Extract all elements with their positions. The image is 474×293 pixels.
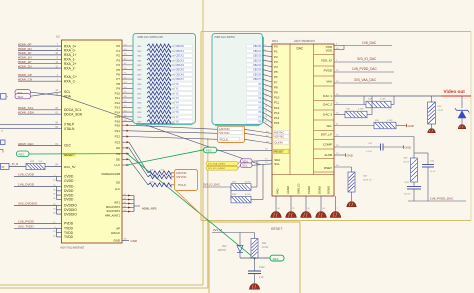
svg-text:P5: P5 xyxy=(116,68,120,72)
svg-text:510R 1%: 510R 1% xyxy=(363,179,372,181)
wire fan: IC1 sync outputs to HSYNC/VSYNC/PCLK labels (A) xyxy=(129,125,218,139)
svg-text:P3: P3 xyxy=(274,60,278,64)
svg-text:PGND: PGND xyxy=(307,186,311,194)
DD1 RESET pin name (highlight) xyxy=(274,149,290,154)
svg-text:RESET: RESET xyxy=(271,227,283,231)
DD1 VAA pin net 3V3_VAA_DAC xyxy=(326,78,392,83)
svg-text:GND: GND xyxy=(131,239,139,243)
svg-text:RSET: RSET xyxy=(324,166,332,170)
svg-text:6.19R: 6.19R xyxy=(380,99,386,101)
svg-text:DD1: DD1 xyxy=(272,39,278,43)
svg-text:RXA_0+: RXA_0+ xyxy=(64,44,76,48)
svg-text:CBCX1: CBCX1 xyxy=(176,50,185,53)
svg-text:P12: P12 xyxy=(274,106,280,110)
DD1 SFL output with resistor R35 to GND xyxy=(326,120,413,129)
svg-text:_5V_M: _5V_M xyxy=(10,163,19,166)
net label pill 3V3_SCL xyxy=(206,166,238,170)
svg-text:RXA_2-: RXA_2- xyxy=(64,66,76,70)
svg-text:CBCX3: CBCX3 xyxy=(176,59,185,62)
DD1 DAC1 output -> Video out xyxy=(323,94,441,98)
svg-text:DVDDIO: DVDDIO xyxy=(64,212,77,216)
svg-text:P5: P5 xyxy=(274,70,278,74)
port (left edge, I2C) xyxy=(1,94,9,100)
DD1 left pin names P0-P15 xyxy=(274,45,280,126)
IC1 right output pins with arrow stubs xyxy=(114,123,129,167)
svg-text:C103: C103 xyxy=(404,182,410,184)
svg-text:P14: P14 xyxy=(274,116,280,120)
svg-text:3V3_TVDD: 3V3_TVDD xyxy=(18,224,34,228)
svg-text:P3: P3 xyxy=(116,58,120,62)
svg-text:RXA_1+: RXA_1+ xyxy=(64,53,76,57)
svg-text:P13: P13 xyxy=(274,111,280,115)
svg-text:PCLK: PCLK xyxy=(178,183,186,187)
IC1 right pins P0-P16 with wires to resistor network RN1 xyxy=(115,44,147,124)
resistor network RN1 (terminator pack) xyxy=(133,34,196,125)
svg-text:P2: P2 xyxy=(274,55,278,59)
svg-text:DE: DE xyxy=(116,158,120,162)
DD1 VDD_IO pin net 3V3_IO_DAC xyxy=(321,57,392,62)
svg-text:PCLK: PCLK xyxy=(220,138,228,142)
svg-text:HDMI_2N: HDMI_2N xyxy=(18,64,32,68)
svg-text:HDMI_CEC: HDMI_CEC xyxy=(18,142,35,146)
svg-text:HS: HS xyxy=(116,146,120,150)
svg-text:VSYNC: VSYNC xyxy=(176,175,187,179)
svg-text:VS: VS xyxy=(116,152,120,156)
svg-text:CBCX6: CBCX6 xyxy=(253,73,262,76)
svg-text:RESET: RESET xyxy=(274,150,284,154)
svg-text:RXA_C-: RXA_C- xyxy=(64,79,76,83)
IC1 pin RESET name xyxy=(63,153,76,158)
svg-text:P0: P0 xyxy=(116,44,120,48)
DD1 ALSB pin to GND xyxy=(324,153,352,158)
diode VD2 BAT54 xyxy=(218,233,243,259)
svg-text:HDMI_SCL: HDMI_SCL xyxy=(18,106,34,110)
svg-text:XTALN: XTALN xyxy=(64,127,75,131)
DD1 EXT_LF pin RC network to 1V8_PVDD_DAC xyxy=(321,133,466,201)
svg-text:RES: RES xyxy=(273,257,279,261)
svg-text:1V8_DVDD: 1V8_DVDD xyxy=(18,183,35,187)
svg-text:CBCX7: CBCX7 xyxy=(176,78,185,81)
svg-text:HDMI_CP: HDMI_CP xyxy=(18,73,32,77)
svg-text:1V8_DAC: 1V8_DAC xyxy=(362,41,377,45)
svg-text:P2: P2 xyxy=(116,54,120,58)
IC1 right lower pin names xyxy=(101,172,120,218)
wire SDA to pin 14 (crossing) xyxy=(31,92,62,96)
svg-text:1V8_PVDD_DAC: 1V8_PVDD_DAC xyxy=(430,196,454,200)
svg-text:P20: P20 xyxy=(115,123,121,127)
svg-text:5V: 5V xyxy=(2,166,5,169)
net label RES (green, left) xyxy=(17,151,30,157)
svg-text:P12: P12 xyxy=(115,101,121,105)
resistor network RN2 (series pack at DAC) xyxy=(212,34,264,126)
TVS diode VD1 on video out xyxy=(455,96,471,129)
svg-text:75.0R: 75.0R xyxy=(438,110,444,112)
IC1 audio out pin names xyxy=(111,227,120,235)
DD1 bottom ground pins to GND xyxy=(271,196,341,217)
DD1 PVDD pin net 1V8_PVDD_DAC xyxy=(324,67,394,72)
svg-text:P23: P23 xyxy=(115,140,121,144)
svg-text:47x0h: 47x0h xyxy=(245,193,252,196)
svg-text:CBCX0: CBCX0 xyxy=(253,45,262,48)
svg-text:MCLK/INT2: MCLK/INT2 xyxy=(106,205,121,209)
wire I2C diagonal from IC1 SDA pin to DAC SDA/SCL xyxy=(62,96,261,165)
IC1 power pins TVDD with net label 3V3_TVDD xyxy=(14,224,74,239)
DD1 DAC3 output with resistor R32 xyxy=(323,96,372,118)
IC1 pins DDCA_SCL/DDCA_SDA with HDMI_SCL/HDMI_SDA labels xyxy=(18,106,83,116)
svg-text:3V3_DVDDIO: 3V3_DVDDIO xyxy=(18,202,38,206)
svg-text:10 k0r: 10 k0r xyxy=(262,247,269,249)
series resistors into group B xyxy=(148,170,175,187)
svg-text:SCL: SCL xyxy=(274,162,280,166)
svg-text:LRCLK: LRCLK xyxy=(111,231,120,235)
svg-text:CBCX6: CBCX6 xyxy=(176,73,185,76)
wire fan: IC1 outputs to series resistors (B) xyxy=(129,142,148,185)
section box: RESET sub-circuit xyxy=(209,222,300,293)
svg-text:RES: RES xyxy=(19,153,25,157)
svg-text:CBCX3: CBCX3 xyxy=(253,59,262,62)
svg-text:HDMI_1N: HDMI_1N xyxy=(18,56,32,60)
port mark red (left edge) xyxy=(0,150,3,153)
svg-text:RES: RES xyxy=(206,149,212,153)
svg-text:P14: P14 xyxy=(115,110,121,114)
svg-text:RXA_0-: RXA_0- xyxy=(64,49,76,53)
IC1 power pins DVDDIO with net label 3V3_DVDDIO xyxy=(14,202,77,217)
IC1 power pins CVDD with net label 1V8_CVDD xyxy=(14,173,74,184)
svg-text:P0: P0 xyxy=(274,45,278,49)
port (left edge, CEC) xyxy=(1,140,6,145)
svg-text:PAD: PAD xyxy=(276,189,280,194)
svg-text:PVDD: PVDD xyxy=(324,69,333,73)
svg-text:0.2r: 0.2r xyxy=(39,161,43,163)
svg-text:SCL: SCL xyxy=(64,90,71,94)
IC1 GND pin xyxy=(113,238,138,243)
svg-text:VDD_IO: VDD_IO xyxy=(321,59,333,63)
section box: video DAC area (right) xyxy=(201,32,471,221)
op-amp/IC DD1 ADV7393BCPZ video DAC body xyxy=(272,39,334,196)
svg-text:P11: P11 xyxy=(274,101,279,105)
wire RES green diagonal to reset circuit xyxy=(127,154,254,258)
svg-text:3V3_SDA_64MHZ: 3V3_SDA_64MHZ xyxy=(208,163,226,166)
svg-text:CBCX5: CBCX5 xyxy=(253,69,262,72)
svg-text:VSYNC: VSYNC xyxy=(274,135,284,139)
svg-text:CBCX2: CBCX2 xyxy=(253,55,262,58)
svg-text:1V8_PVDD: 1V8_PVDD xyxy=(18,219,35,223)
svg-text:VD2: VD2 xyxy=(222,246,227,248)
svg-text:CBCX4: CBCX4 xyxy=(176,64,185,67)
svg-text:SDA: SDA xyxy=(18,95,24,99)
wire Video out (red) xyxy=(441,89,471,96)
svg-text:COMP: COMP xyxy=(323,142,332,146)
wire RES green to RES label near DAC xyxy=(127,150,204,165)
section box: HDMI receiver area (left), bottom+right borders xyxy=(0,0,208,288)
svg-text:R31: R31 xyxy=(368,99,372,101)
net label 3V3_IO_DAC with pull-up resistors R33/R34 xyxy=(203,161,263,203)
harness label group A: HSYNC/VSYNC/PCLK at DAC xyxy=(218,126,245,143)
wire RES green across to right pin xyxy=(29,153,127,155)
svg-text:P7: P7 xyxy=(116,77,120,81)
resistor R42 10k (reset pull-up) xyxy=(251,233,269,261)
svg-text:P7: P7 xyxy=(274,80,278,84)
wire reset node xyxy=(240,257,270,259)
IC1 power pins PVDD with net label 1V8_PVDD xyxy=(14,219,74,225)
svg-text:P1: P1 xyxy=(116,49,120,53)
DD1 SDA/SCL pin names xyxy=(274,158,280,166)
svg-text:HDMI_1P: HDMI_1P xyxy=(18,51,31,55)
svg-text:3V3_IO_DAC: 3V3_IO_DAC xyxy=(357,57,377,61)
svg-text:3V3_VAA_DAC: 3V3_VAA_DAC xyxy=(354,78,377,82)
IC1 HDMI differential input pins with net labels xyxy=(18,42,77,83)
resistor R60 0.2R (RXA_5V feed) xyxy=(9,161,76,170)
svg-text:C102: C102 xyxy=(259,267,265,269)
svg-text:V&FIELD/ALSB: V&FIELD/ALSB xyxy=(101,172,120,176)
svg-text:P4: P4 xyxy=(274,65,278,69)
svg-text:DGND: DGND xyxy=(327,186,331,194)
svg-text:P22: P22 xyxy=(115,135,121,139)
svg-text:PVDD: PVDD xyxy=(64,222,74,226)
svg-text:CBCX0: CBCX0 xyxy=(176,45,185,48)
DD1 bottom ground pad names (rotated) xyxy=(276,184,331,194)
svg-text:GND_IO: GND_IO xyxy=(297,184,301,194)
svg-text:150 nF: 150 nF xyxy=(404,193,411,195)
svg-text:12 nF: 12 nF xyxy=(430,171,436,173)
svg-text:1V8_PVDD_DAC: 1V8_PVDD_DAC xyxy=(352,67,378,71)
DD1 DAC2 output with resistor R31 xyxy=(323,96,394,108)
svg-text:CBCX4: CBCX4 xyxy=(253,64,262,67)
svg-text:P13: P13 xyxy=(115,106,121,110)
svg-text:ADV7611WBSWZ: ADV7611WBSWZ xyxy=(59,246,84,250)
IC1 pin CEC with HDMI_CEC label xyxy=(18,142,72,148)
svg-text:P15: P15 xyxy=(115,115,121,119)
svg-text:2.2 nF: 2.2 nF xyxy=(365,151,373,153)
svg-text:P6: P6 xyxy=(116,73,120,77)
harness labels SCL/SDA (left I2C) xyxy=(15,90,31,99)
svg-text:SCLK/INT2: SCLK/INT2 xyxy=(106,209,120,213)
svg-text:P10: P10 xyxy=(274,96,280,100)
svg-text:ALSB: ALSB xyxy=(324,153,332,157)
wires RN2 to DAC pins P0-P15 xyxy=(263,45,273,128)
svg-text:P10: P10 xyxy=(115,91,121,95)
svg-text:LLC: LLC xyxy=(114,163,120,167)
port 5V_M (left) xyxy=(1,163,19,169)
svg-text:RXA_5V: RXA_5V xyxy=(64,165,76,169)
svg-text:3V3_IO_DAC: 3V3_IO_DAC xyxy=(203,182,220,186)
svg-text:*: * xyxy=(7,95,8,99)
wires group A to DAC sync pins xyxy=(245,129,273,143)
svg-text:VSYNC: VSYNC xyxy=(219,131,230,135)
svg-text:P8: P8 xyxy=(274,85,278,89)
svg-text:P15: P15 xyxy=(274,121,280,125)
svg-text:RXA_1-: RXA_1- xyxy=(64,58,76,62)
svg-text:CBCX1: CBCX1 xyxy=(253,50,262,53)
svg-text:CBCX7: CBCX7 xyxy=(253,78,262,81)
svg-text:GND: GND xyxy=(405,145,411,149)
svg-text:1 nF: 1 nF xyxy=(259,277,264,279)
svg-text:CBCX5: CBCX5 xyxy=(176,69,185,72)
ground (reset circuit) xyxy=(249,284,260,290)
wire RES label to DAC RESET pin xyxy=(217,149,272,151)
svg-text:R42: R42 xyxy=(262,242,267,245)
svg-text:P4: P4 xyxy=(116,63,120,67)
svg-text:HDMI_2P: HDMI_2P xyxy=(18,60,31,64)
svg-text:DAC 1: DAC 1 xyxy=(323,94,332,98)
harness cable orange to reset box xyxy=(176,191,209,223)
svg-text:6.19R: 6.19R xyxy=(358,109,364,111)
DD1 sync pin names HSYNC/VSYNC/CLKIN xyxy=(274,130,290,144)
svg-text:DGND: DGND xyxy=(318,186,322,194)
svg-text:DDCA_SCL: DDCA_SCL xyxy=(64,108,82,112)
harness labels SDA/SCL at DAC xyxy=(241,159,253,168)
svg-text:VAA: VAA xyxy=(326,80,332,84)
svg-text:LLC: LLC xyxy=(115,187,120,191)
svg-text:GND: GND xyxy=(113,239,121,243)
svg-text:TVDD: TVDD xyxy=(64,235,74,239)
svg-text:P8: P8 xyxy=(116,82,120,86)
capacitor C102 1nF xyxy=(248,258,265,283)
wires SDA/SCL to DAC pins xyxy=(238,158,272,168)
DD1 COMP pin with capacitor C30 to GND xyxy=(323,142,411,152)
IC1 power pins DVDD with net label 1V8_DVDD xyxy=(14,183,74,202)
svg-text:VDD: VDD xyxy=(326,49,333,53)
net label RES (green, near DAC) xyxy=(204,147,217,153)
svg-text:GND: GND xyxy=(408,124,414,128)
svg-text:3V3_SCL_64MHZ: 3V3_SCL_64MHZ xyxy=(208,168,226,170)
resistor R30 75R shunt to ground xyxy=(428,96,444,133)
svg-text:BAT54?: BAT54? xyxy=(218,249,227,252)
svg-text:CLKIN: CLKIN xyxy=(274,141,283,145)
harness label group B: HSYNC/VSYNC/PCLK source xyxy=(175,170,198,191)
svg-text:DAC 2: DAC 2 xyxy=(323,103,332,107)
svg-text:CVDD: CVDD xyxy=(64,175,74,179)
wire SCL to pin 13 (crossing) xyxy=(31,92,62,96)
svg-text:P21: P21 xyxy=(115,129,121,133)
svg-text:3V3_M: 3V3_M xyxy=(213,228,223,232)
IC1 pins XTALP/XTALN xyxy=(0,122,75,131)
svg-text:EXT_LF: EXT_LF xyxy=(321,133,332,137)
svg-text:CBCX2: CBCX2 xyxy=(176,55,185,58)
svg-text:RXA_C+: RXA_C+ xyxy=(64,75,77,79)
svg-text:HDMI_SDA: HDMI_SDA xyxy=(18,111,35,115)
svg-text:HDMI_CN: HDMI_CN xyxy=(18,78,32,82)
op-amp/IC U1 ADV7611 HDMI receiver body xyxy=(56,35,122,250)
svg-text:GND: GND xyxy=(347,154,353,158)
IC1 right stubs bracket (test pins) with label HDMI_NPS xyxy=(122,194,157,213)
svg-text:P9: P9 xyxy=(116,87,120,91)
DD1 RSET pin resistor R38 to ground xyxy=(324,165,372,207)
svg-text:P9: P9 xyxy=(274,91,278,95)
svg-text:DDCA_SDA: DDCA_SDA xyxy=(64,112,83,116)
svg-text:DVDD: DVDD xyxy=(64,198,74,202)
svg-text:SCL: SCL xyxy=(242,164,248,168)
svg-text:HPA_A/INT1: HPA_A/INT1 xyxy=(105,213,121,217)
svg-text:AGND: AGND xyxy=(286,186,290,194)
net label RES (green, reset circuit) xyxy=(270,255,284,261)
IC1 pins SCL/SDA xyxy=(55,89,71,98)
svg-text:6.19R: 6.19R xyxy=(387,120,393,122)
svg-text:DAC 3: DAC 3 xyxy=(323,113,332,117)
svg-text:U1: U1 xyxy=(56,35,60,39)
svg-text:9k1 0r: 9k1 0r xyxy=(404,161,410,164)
svg-text:RXA_2+: RXA_2+ xyxy=(64,62,76,66)
net label pill 3V3_SDA xyxy=(206,162,238,166)
svg-text:CEC: CEC xyxy=(64,144,72,148)
svg-text:P1: P1 xyxy=(274,50,278,54)
svg-text:DAC: DAC xyxy=(297,47,304,51)
svg-text:XTALP: XTALP xyxy=(64,123,75,127)
svg-text:1V8_CVDD: 1V8_CVDD xyxy=(18,173,35,177)
svg-text:HDMI_0N: HDMI_0N xyxy=(18,47,32,51)
svg-text:8xBP-4/22 10R/5% 22R: 8xBP-4/22 10R/5% 22R xyxy=(138,36,164,39)
svg-text:ADV7393BCPZ: ADV7393BCPZ xyxy=(294,39,315,43)
svg-text:CVDD: CVDD xyxy=(64,179,74,183)
svg-text:P11: P11 xyxy=(115,96,120,100)
svg-text:47x0h: 47x0h xyxy=(245,180,252,183)
DD1 VDD pins with net 1V8_DAC xyxy=(326,41,392,52)
svg-text:HDMI_0P: HDMI_0P xyxy=(18,42,31,46)
svg-text:INT1: INT1 xyxy=(114,200,120,204)
svg-text:DE: DE xyxy=(116,180,120,184)
svg-text:P6: P6 xyxy=(274,75,278,79)
svg-text:8xBP-4/22 10R/5%: 8xBP-4/22 10R/5% xyxy=(215,36,236,39)
svg-text:HDMI_NPS: HDMI_NPS xyxy=(142,206,157,210)
svg-text:Video out: Video out xyxy=(444,89,466,94)
net label 3V3_M in reset circuit xyxy=(212,228,255,232)
svg-text:SFL: SFL xyxy=(326,124,332,128)
